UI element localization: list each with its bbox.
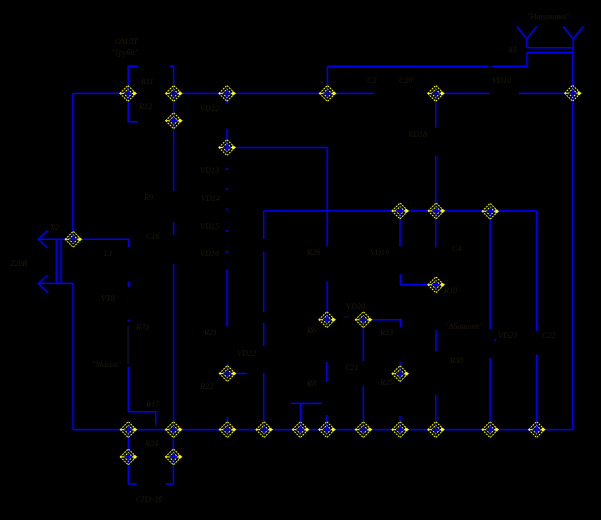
svg-text:"Масса": "Масса"	[92, 360, 121, 369]
wire x227 stub below node	[226, 93, 228, 103]
wire x327 seg y362	[326, 362, 328, 382]
wire stub diode chain 2	[226, 188, 228, 190]
connector X1 bar line 1	[527, 47, 573, 49]
node N8	[219, 140, 236, 156]
node N2	[166, 85, 183, 101]
node N1	[120, 85, 137, 101]
node N13	[428, 277, 445, 293]
wire node B horizontal y148	[227, 147, 327, 149]
wire x327 segment to node	[326, 281, 328, 319]
wire x128 stub below y239	[128, 239, 130, 247]
wire stub diode chain 5	[226, 251, 228, 253]
wire mid bus y211	[264, 210, 537, 212]
wire x327 drop from y148	[326, 148, 328, 247]
node N9	[65, 231, 82, 247]
node N3	[219, 85, 236, 101]
svg-text:VD20: VD20	[346, 302, 365, 311]
wire x400 stub above node	[399, 361, 401, 373]
svg-text:VD14: VD14	[201, 194, 220, 203]
pin dot x128 y320	[127, 320, 129, 322]
wire tee drop x300	[299, 403, 301, 429]
wire top rail to connector	[327, 65, 488, 67]
svg-text:L1: L1	[103, 249, 113, 258]
node N16	[219, 366, 236, 382]
node N22	[292, 422, 309, 438]
svg-text:С4: С4	[452, 244, 462, 253]
wire connector left drop	[526, 52, 528, 66]
connector X1 right contact	[563, 26, 583, 39]
wire x128 dash y281	[128, 282, 130, 287]
svg-text:"Труба": "Труба"	[111, 48, 139, 57]
node N5	[428, 85, 445, 101]
connector X2 lower contact	[38, 275, 47, 293]
svg-text:СП3-1б: СП3-1б	[136, 495, 163, 504]
wire x490 upper	[489, 211, 491, 329]
wire riser x327 to top rail	[326, 66, 328, 93]
node N21	[256, 422, 273, 438]
connector X2 upper lead	[38, 238, 73, 240]
node N17	[392, 366, 409, 382]
svg-text:VD12: VD12	[200, 104, 219, 113]
wire tee y403	[291, 402, 322, 404]
wire x173 seg2	[173, 222, 175, 235]
node N19	[165, 422, 182, 438]
wire x128 lower segment	[127, 367, 129, 412]
svg-text:С20: С20	[399, 76, 413, 85]
wire x536 upper	[536, 211, 538, 331]
wire x400 stub below mid bus	[399, 211, 401, 246]
node N23	[319, 422, 336, 438]
transistor body ghost VT8	[127, 326, 129, 364]
svg-text:Х2: Х2	[49, 223, 59, 232]
connector X1 bar line 2	[527, 51, 573, 53]
svg-text:R73: R73	[135, 323, 149, 332]
wire corner x128 to x155	[128, 412, 155, 424]
wire stub diode chain 3	[226, 209, 228, 211]
node N29	[120, 449, 137, 465]
svg-text:VD15: VD15	[200, 222, 219, 231]
svg-text:"Абонент": "Абонент"	[445, 322, 483, 331]
svg-text:R24: R24	[144, 439, 158, 448]
node N6	[565, 85, 582, 101]
svg-text:R9: R9	[143, 193, 153, 202]
wire right column x572	[572, 52, 574, 429]
node N18	[120, 422, 137, 438]
svg-text:VD22: VD22	[237, 349, 256, 358]
connector X2 lower lead	[38, 282, 73, 284]
wire x128 bottom bus to lower node	[127, 430, 129, 484]
wire x263 seg4	[263, 373, 265, 430]
wire stub diode chain 1	[226, 168, 228, 170]
wire top rail right part	[492, 65, 527, 67]
wire x263 seg2	[263, 251, 265, 312]
svg-text:R8: R8	[306, 379, 316, 388]
node N25	[392, 422, 409, 438]
svg-text:VD23: VD23	[498, 331, 517, 340]
svg-text:С16: С16	[146, 232, 161, 241]
wire vertical x173 upper	[173, 66, 175, 191]
node N20	[219, 422, 236, 438]
svg-text:"Наушники": "Наушники"	[527, 12, 570, 21]
wire x263 seg3	[263, 323, 265, 346]
connector X1 right contact stub	[572, 39, 574, 52]
wire left vertical upper	[72, 93, 74, 239]
wire top bus segment VD10 left	[436, 92, 490, 94]
svg-text:С2: С2	[367, 76, 377, 85]
node N24	[355, 422, 372, 438]
wire x400 below node	[399, 374, 401, 383]
wire x436 to bottom bus	[435, 395, 437, 430]
svg-text:220В: 220В	[10, 259, 27, 268]
wire left vertical lower	[72, 283, 74, 429]
wire x263 seg1	[263, 211, 265, 239]
svg-text:R11: R11	[140, 77, 154, 86]
wire x327 to bottom bus	[326, 415, 328, 429]
svg-text:R12: R12	[138, 102, 152, 111]
node N4	[319, 85, 336, 101]
connector X2 cable line 2	[60, 239, 62, 283]
svg-text:VD18: VD18	[408, 130, 427, 139]
wire x436 seg y330	[435, 330, 437, 351]
svg-text:С22: С22	[542, 331, 556, 340]
svg-text:R6: R6	[306, 326, 317, 335]
svg-text:VD13: VD13	[200, 166, 219, 175]
node N28	[529, 422, 546, 438]
node N30	[165, 449, 182, 465]
svg-text:С21: С21	[345, 363, 359, 372]
svg-text:R30: R30	[449, 356, 463, 365]
wire x363 upper	[362, 320, 364, 361]
connector X2 cable line 1	[55, 239, 57, 283]
pin dot x155 y425	[155, 425, 157, 427]
svg-text:R26: R26	[306, 248, 321, 257]
wire x490 lower	[489, 358, 491, 429]
svg-text:VТ8: VТ8	[101, 294, 115, 303]
wire node y373 horizontal	[227, 373, 246, 375]
wire x536 lower	[536, 355, 538, 430]
node N12	[482, 203, 499, 219]
wire y320 node to corner	[363, 320, 400, 327]
svg-text:VD10: VD10	[492, 76, 511, 85]
wire x173 long lower	[173, 264, 175, 430]
connector X1 left contact	[517, 26, 537, 39]
pin dot near x490	[494, 339, 496, 341]
node N11	[428, 203, 445, 219]
wire x227 above node B	[226, 129, 228, 148]
wire top bus mid segment	[174, 92, 227, 94]
resistor bracket bottom right	[166, 483, 174, 485]
wire x363 lower	[362, 386, 364, 429]
resistor bracket left R11/R12	[128, 66, 137, 122]
svg-text:Х1: Х1	[507, 45, 517, 54]
wire top bus segment to C20	[227, 92, 374, 94]
resistor bracket bottom left	[128, 483, 136, 485]
junction nodes	[65, 85, 582, 465]
resistor bracket right R11/R12	[169, 65, 173, 67]
svg-text:R10: R10	[443, 286, 457, 295]
svg-text:R21: R21	[203, 328, 217, 337]
wire stub diode chain 4	[226, 230, 228, 232]
node N15	[355, 312, 372, 328]
wire corner to node R10	[400, 274, 436, 284]
connector X1 left contact stub	[526, 39, 528, 48]
wire top bus segment VD10 right	[519, 92, 573, 94]
svg-text:R33: R33	[379, 328, 393, 337]
node N26	[428, 422, 445, 438]
node N7	[166, 113, 183, 129]
wire x400 to bottom bus	[399, 416, 401, 430]
node N14	[319, 312, 336, 328]
wire node y239 horizontal	[73, 238, 128, 240]
svg-text:VD19: VD19	[370, 248, 389, 257]
wire x173 bottom bus to lower node	[172, 430, 174, 484]
svg-text:R25: R25	[379, 378, 393, 387]
wire x227 to bottom bus	[226, 417, 228, 430]
node N27	[482, 422, 499, 438]
wire x227 stub above node y373	[226, 364, 228, 374]
svg-text:R22: R22	[199, 382, 213, 391]
node N10	[392, 203, 409, 219]
svg-text:ОМЛТ: ОМЛТ	[115, 37, 139, 46]
svg-text:VD16: VD16	[200, 249, 220, 258]
wire x436 stub below top node	[435, 93, 437, 127]
wire x227 mid solid	[226, 270, 228, 327]
wire bottom bus	[73, 429, 573, 431]
wire top bus left segment	[73, 92, 128, 94]
connector X2 upper contact	[38, 230, 47, 248]
component ghost dash near R33	[344, 316, 349, 318]
wire x436 middle segment	[435, 156, 437, 248]
svg-text:R17: R17	[145, 400, 160, 409]
